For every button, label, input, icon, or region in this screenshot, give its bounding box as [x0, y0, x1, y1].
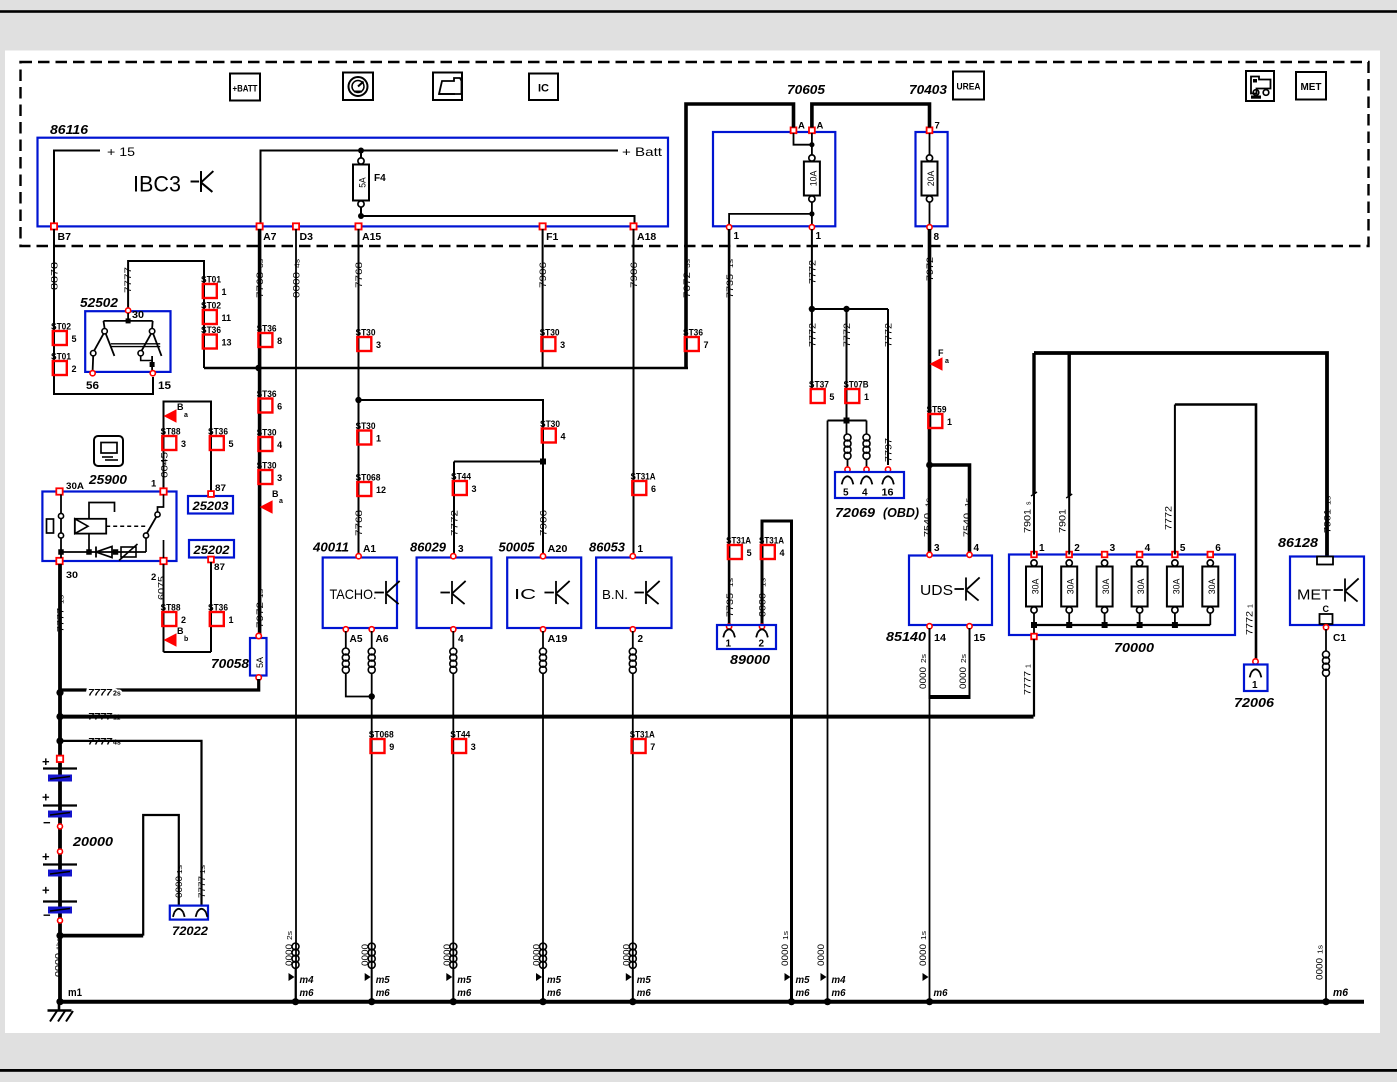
branch to UDS pin 4 — [930, 465, 970, 554]
icon printer — [433, 73, 462, 101]
svg-text:ST31A: ST31A — [726, 536, 751, 547]
fuse holder 70403 box — [916, 132, 948, 226]
70605 pins A A — [791, 127, 797, 133]
svg-text:5: 5 — [1180, 543, 1186, 554]
control unit UDS 85140 box — [909, 556, 992, 626]
52502 internals — [127, 313, 129, 321]
svg-text:7735: 7735 — [725, 274, 735, 298]
branch junction on wire 7768 — [355, 397, 361, 403]
svg-text:70000: 70000 — [1114, 640, 1155, 655]
svg-text:ST068: ST068 — [356, 473, 381, 484]
fuse F4 5A — [358, 148, 364, 154]
svg-text:87: 87 — [215, 483, 226, 494]
bridge wire 25900 pin1 to 25203 pin 87 — [164, 402, 212, 494]
battery feed wire 7777 (thick vertical) — [58, 564, 62, 1002]
svg-text:F4: F4 — [374, 173, 386, 184]
thick feed wire 70605 to 70403 pin 7 — [812, 104, 930, 128]
svg-text:7772: 7772 — [1163, 506, 1173, 530]
svg-text:7777: 7777 — [55, 608, 65, 632]
svg-text:a: a — [184, 412, 188, 419]
svg-text:+: + — [42, 849, 50, 864]
70605 pins 1 1 — [727, 225, 732, 230]
wire 7768 from A15 — [358, 229, 360, 554]
svg-text:1s: 1s — [728, 577, 735, 587]
svg-text:72069: 72069 — [835, 505, 876, 520]
svg-text:0000: 0000 — [174, 876, 184, 898]
svg-text:1s: 1s — [783, 930, 790, 940]
connector ST068/9 — [371, 739, 385, 753]
connector ST44/3 — [453, 481, 467, 495]
svg-text:1: 1 — [222, 287, 227, 297]
svg-text:m5: m5 — [376, 974, 390, 986]
svg-text:30A: 30A — [1101, 579, 1111, 595]
svg-text:1: 1 — [1039, 543, 1045, 554]
wire 7901 fuse2 — [1068, 496, 1070, 555]
svg-text:1: 1 — [229, 615, 234, 625]
svg-text:ST30: ST30 — [257, 428, 277, 439]
svg-text:ST44: ST44 — [451, 472, 472, 483]
wire from F4 to pin A18 — [361, 216, 635, 226]
svg-text:−: − — [43, 908, 51, 923]
fuse box 70000 — [1009, 555, 1235, 636]
svg-text:70403: 70403 — [909, 82, 948, 97]
svg-text:A20: A20 — [548, 544, 568, 555]
svg-text:4: 4 — [1145, 543, 1151, 554]
svg-text:2s: 2s — [287, 930, 294, 940]
svg-text:7777: 7777 — [1023, 671, 1033, 695]
svg-text:1: 1 — [864, 392, 869, 402]
connector ST44/3 — [452, 739, 466, 753]
connector ST36/13 — [203, 335, 217, 349]
svg-text:13: 13 — [222, 338, 232, 348]
connector ST31A/4 — [761, 545, 775, 559]
fuse 20A — [926, 155, 932, 161]
connector ST02/11 — [203, 310, 217, 324]
svg-text:3: 3 — [472, 484, 477, 494]
svg-text:0000: 0000 — [532, 944, 542, 966]
svg-text:7768: 7768 — [354, 510, 364, 536]
svg-text:5: 5 — [829, 392, 834, 402]
connector ST36/6 — [258, 399, 272, 413]
branch to 7797 — [887, 309, 889, 465]
70403 pin 8 — [927, 225, 932, 230]
connector ST36/8 — [258, 333, 272, 347]
fuse 30A #3 — [1102, 552, 1108, 558]
svg-text:ST07B: ST07B — [844, 380, 869, 391]
svg-text:ST01: ST01 — [51, 352, 72, 363]
fuse 30A #5 — [1172, 552, 1178, 558]
svg-text:1: 1 — [1248, 604, 1255, 608]
coils under components — [345, 631, 347, 648]
svg-text:m4: m4 — [300, 974, 314, 986]
icon IC — [529, 74, 558, 101]
connector 72022 — [170, 906, 208, 920]
svg-text:7768: 7768 — [255, 272, 265, 298]
svg-text:MET: MET — [1301, 82, 1322, 93]
svg-text:3: 3 — [934, 543, 940, 554]
unit 50005 IC box — [507, 558, 581, 629]
connector ST36/7 — [685, 337, 699, 351]
connector ST31A/5 — [728, 545, 742, 559]
fuse 10A — [809, 155, 815, 161]
connector ST30/3 — [357, 337, 371, 351]
svg-text:(OBD): (OBD) — [883, 505, 919, 520]
joining wire — [164, 651, 212, 653]
unit 86053 B.N. box — [596, 558, 671, 629]
svg-text:0000: 0000 — [780, 944, 790, 966]
svg-text:TACHO.: TACHO. — [330, 586, 377, 602]
svg-text:8878: 8878 — [50, 262, 60, 290]
svg-text:2s: 2s — [921, 653, 928, 663]
svg-text:ST02: ST02 — [51, 322, 71, 333]
svg-text:72006: 72006 — [1234, 695, 1275, 710]
svg-text:0000: 0000 — [758, 593, 768, 617]
connector ST07B/1 — [845, 389, 859, 403]
svg-text:ST01: ST01 — [201, 275, 222, 286]
wire 7772 fuse5 — [1174, 405, 1176, 555]
svg-text:9: 9 — [389, 742, 394, 752]
svg-text:A19: A19 — [548, 634, 568, 645]
svg-text:+ 15: + 15 — [107, 145, 135, 159]
svg-text:IBC3: IBC3 — [133, 172, 181, 197]
ground drop m5/m6 at x=453.3 — [450, 943, 457, 950]
svg-text:7772: 7772 — [808, 323, 818, 347]
svg-text:6: 6 — [277, 402, 282, 412]
fuse 30A #2 — [1066, 552, 1072, 558]
svg-text:B: B — [177, 402, 184, 412]
ground drop m5/m6 at x=632.8 — [629, 943, 636, 950]
wire 7772 from 70605 pin 1 — [811, 229, 813, 390]
svg-text:1: 1 — [151, 479, 157, 490]
svg-text:1s: 1s — [728, 258, 735, 268]
connector ST59/1 — [928, 414, 942, 428]
svg-text:30A: 30A — [1066, 579, 1076, 595]
wire A5 joins A6 — [346, 673, 372, 697]
wire 7906 from F1 — [542, 229, 544, 368]
svg-text:7772: 7772 — [842, 323, 852, 347]
wire 7901 fuse1 — [1033, 494, 1035, 555]
svg-text:5: 5 — [747, 548, 752, 558]
svg-text:ST36: ST36 — [257, 389, 277, 400]
25900 pins 30A 1 30 2 — [56, 488, 62, 494]
svg-text:2: 2 — [181, 615, 186, 625]
unit 86029 box — [417, 558, 492, 629]
svg-text:0000: 0000 — [621, 944, 631, 966]
svg-text:3: 3 — [471, 742, 476, 752]
svg-text:ST068: ST068 — [369, 730, 394, 741]
svg-text:6075: 6075 — [157, 576, 167, 600]
wire +Batt rail inside IBC3 — [261, 151, 619, 227]
50005 pins — [540, 554, 545, 559]
svg-text:+ Batt: + Batt — [622, 145, 663, 159]
svg-text:1s: 1s — [926, 497, 933, 507]
svg-text:m6: m6 — [457, 987, 471, 999]
svg-text:7772: 7772 — [808, 260, 818, 284]
distribution wire to MET (thick) — [1034, 353, 1327, 557]
connector ST01/1 — [203, 284, 217, 298]
svg-text:1s: 1s — [965, 497, 972, 507]
wire 7972 from 70403 pin 8 (thick) — [928, 229, 932, 554]
svg-text:ST30: ST30 — [540, 328, 560, 339]
svg-text:6: 6 — [1215, 543, 1221, 554]
svg-text:7901: 7901 — [1323, 509, 1333, 533]
icon clock — [343, 73, 373, 101]
svg-text:20A: 20A — [926, 171, 936, 187]
connector 72022 wiring — [143, 815, 179, 936]
svg-text:12: 12 — [376, 485, 386, 495]
svg-text:0000: 0000 — [360, 944, 370, 966]
relay 25900 internals — [47, 519, 54, 533]
wire 7772 to 72006 — [1175, 405, 1256, 661]
svg-text:m6: m6 — [796, 987, 810, 999]
svg-text:ST88: ST88 — [161, 427, 181, 438]
svg-text:1hs: 1hs — [57, 937, 64, 950]
svg-text:7906: 7906 — [538, 262, 548, 288]
svg-text:2: 2 — [638, 634, 644, 645]
svg-text:52502: 52502 — [80, 295, 119, 310]
svg-text:b: b — [184, 636, 188, 643]
svg-text:0000: 0000 — [918, 944, 928, 966]
svg-text:ST31A: ST31A — [631, 472, 656, 483]
svg-text:m6: m6 — [376, 987, 390, 999]
svg-text:1s: 1s — [258, 588, 265, 598]
svg-text:a: a — [279, 498, 283, 505]
svg-text:1s: 1s — [177, 864, 184, 874]
svg-text:s: s — [1026, 501, 1033, 505]
svg-text:IC: IC — [538, 83, 549, 95]
svg-text:7901: 7901 — [1058, 509, 1068, 533]
connector ST30/4 — [258, 437, 272, 451]
svg-text:4: 4 — [862, 488, 868, 499]
diagnostic connector 72069 OBD — [845, 467, 850, 472]
svg-text:ST37: ST37 — [809, 380, 829, 391]
connector ST30/3 — [541, 337, 555, 351]
svg-text:A: A — [817, 121, 824, 132]
svg-text:+: + — [42, 883, 50, 898]
svg-text:1: 1 — [726, 639, 732, 650]
svg-text:D3: D3 — [300, 231, 314, 243]
battery 20000 — [57, 756, 63, 762]
UDS ground wires — [929, 628, 931, 699]
svg-text:30A: 30A — [1136, 579, 1146, 595]
IBC3 pins B7 A7 D3 A15 F1 A18 — [51, 223, 57, 229]
svg-text:7972: 7972 — [925, 257, 935, 281]
svg-text:0000: 0000 — [54, 953, 64, 977]
svg-text:4: 4 — [277, 440, 282, 450]
svg-text:1: 1 — [1252, 680, 1258, 691]
svg-text:1: 1 — [1026, 664, 1033, 668]
svg-text:86116: 86116 — [50, 122, 89, 137]
ground drop m4/m6 at x=295.5 — [292, 943, 299, 950]
icon UREA — [953, 72, 984, 100]
svg-text:3: 3 — [376, 340, 381, 350]
wire 7777 from fuse box to bus — [1033, 639, 1035, 717]
70000 internal bus — [1034, 624, 1210, 626]
svg-text:C: C — [1323, 604, 1330, 614]
svg-text:ST02: ST02 — [201, 301, 221, 312]
svg-text:70058: 70058 — [211, 656, 250, 671]
svg-text:2: 2 — [1074, 543, 1080, 554]
relay output boxes 25203 — [188, 496, 233, 514]
icon truck — [1246, 71, 1274, 101]
svg-text:1: 1 — [376, 434, 381, 444]
svg-text:A7: A7 — [263, 231, 277, 243]
main bus 7777 to fuse box 70000 — [60, 715, 1034, 719]
86053 pins — [630, 554, 635, 559]
svg-text:20000: 20000 — [72, 834, 114, 849]
svg-text:IC: IC — [514, 586, 536, 603]
svg-text:1: 1 — [638, 544, 644, 555]
svg-text:ST31A: ST31A — [630, 730, 655, 741]
svg-text:0000: 0000 — [958, 667, 968, 689]
MET ground wire — [1325, 629, 1327, 651]
connector ST31A/7 — [632, 739, 646, 753]
svg-text:7540: 7540 — [962, 513, 972, 537]
fuse 30A #4 — [1137, 552, 1143, 558]
svg-text:7772: 7772 — [1245, 611, 1255, 635]
svg-text:15: 15 — [158, 380, 171, 392]
svg-text:2s: 2s — [113, 691, 121, 698]
svg-text:1s: 1s — [200, 864, 207, 874]
svg-text:1s: 1s — [58, 594, 65, 604]
battery negative link — [60, 934, 143, 938]
svg-text:A6: A6 — [376, 634, 389, 645]
svg-text:5: 5 — [72, 334, 77, 344]
svg-text:6: 6 — [651, 484, 656, 494]
OBD splice horizontal — [828, 420, 867, 422]
svg-text:B.N.: B.N. — [602, 587, 628, 602]
connector ST36/5 — [210, 436, 224, 450]
wire 7768 3s from A7 (thick) — [258, 229, 262, 634]
connector ST02/5 — [53, 331, 67, 345]
wire 70058 to battery feed — [60, 679, 259, 690]
wire 7735 from 70605 pin 1 to 89000 — [728, 229, 731, 625]
svg-text:m6: m6 — [832, 987, 846, 999]
svg-text:ST36: ST36 — [257, 324, 277, 335]
svg-text:72022: 72022 — [172, 924, 208, 938]
svg-text:4: 4 — [561, 432, 566, 442]
svg-text:1: 1 — [816, 231, 822, 242]
branch wire to ST44/3 — [454, 461, 543, 463]
svg-text:30A: 30A — [1207, 579, 1217, 595]
svg-text:ST30: ST30 — [257, 461, 277, 472]
wire 7906 from A18 — [633, 229, 635, 554]
svg-text:4: 4 — [780, 548, 785, 558]
fuse holder 70605 box — [713, 132, 835, 226]
svg-text:7777: 7777 — [123, 267, 133, 293]
svg-text:30: 30 — [132, 310, 144, 321]
svg-text:8: 8 — [277, 336, 282, 346]
svg-text:MET: MET — [1297, 587, 1331, 604]
switch unit 52502 box — [85, 311, 170, 372]
svg-text:7972: 7972 — [255, 602, 265, 628]
svg-text:2: 2 — [72, 364, 77, 374]
svg-text:4: 4 — [974, 543, 980, 554]
svg-text:4: 4 — [458, 634, 464, 645]
svg-text:87: 87 — [214, 562, 225, 573]
svg-text:+BATT: +BATT — [233, 84, 258, 94]
svg-text:+: + — [42, 790, 50, 805]
svg-text:A18: A18 — [637, 231, 656, 243]
svg-text:0000: 0000 — [292, 272, 302, 298]
svg-text:25900: 25900 — [88, 472, 128, 487]
svg-text:UDS: UDS — [920, 582, 953, 599]
svg-text:7777: 7777 — [197, 876, 207, 898]
svg-text:7768: 7768 — [354, 262, 364, 288]
connector ST068/12 — [357, 482, 371, 496]
svg-text:3: 3 — [277, 473, 282, 483]
svg-text:50005: 50005 — [499, 541, 536, 555]
relay resistor with arrow — [121, 547, 136, 557]
svg-text:16: 16 — [882, 488, 894, 499]
svg-text:ST44: ST44 — [450, 730, 471, 741]
svg-text:7540: 7540 — [923, 513, 933, 537]
svg-text:0000: 0000 — [918, 667, 928, 689]
70403 pin 7 — [927, 127, 933, 133]
svg-text:3s: 3s — [685, 258, 692, 268]
svg-text:2: 2 — [759, 639, 765, 650]
86029 pins — [451, 554, 456, 559]
connector ST30/1 — [357, 431, 371, 445]
svg-text:UREA: UREA — [957, 82, 981, 92]
70000 output pin — [1031, 634, 1037, 640]
ground drop m5/m6 at x=543 — [540, 943, 547, 950]
svg-text:7772: 7772 — [450, 510, 460, 536]
long distribution wire 7777 horizontal — [204, 367, 688, 370]
svg-text:A15: A15 — [362, 231, 381, 243]
svg-text:m5: m5 — [457, 974, 471, 986]
connector 72006 — [1253, 659, 1258, 664]
svg-text:56: 56 — [86, 380, 99, 392]
wire 7906 down to 50005 A20 — [542, 462, 544, 555]
tachograph 40011 box — [323, 558, 397, 629]
ground wires of components — [371, 673, 373, 999]
svg-text:m4: m4 — [832, 974, 846, 986]
svg-text:25202: 25202 — [192, 543, 229, 557]
ground bus m6 — [60, 1000, 1364, 1004]
52502 pins 56 and 15 — [90, 371, 95, 376]
ground symbol m1 — [58, 1002, 61, 1011]
svg-text:15: 15 — [974, 633, 986, 644]
svg-text:m6: m6 — [934, 987, 948, 999]
svg-text:m5: m5 — [637, 974, 651, 986]
svg-text:85140: 85140 — [886, 629, 927, 644]
svg-text:1s: 1s — [761, 577, 768, 587]
connector 89000 — [727, 624, 732, 629]
connector ST30/3 — [258, 470, 272, 484]
control unit 86116 IBC3 box — [38, 138, 669, 227]
connector ST30/4 — [542, 429, 556, 443]
svg-text:40011: 40011 — [312, 541, 349, 555]
svg-text:7: 7 — [650, 742, 655, 752]
svg-text:ST36: ST36 — [683, 328, 703, 339]
wire 8878 from B7 — [54, 229, 153, 394]
svg-text:7: 7 — [704, 340, 709, 350]
wire 7777 from 52502 pin 30 — [128, 261, 204, 368]
svg-text:2: 2 — [151, 572, 156, 583]
svg-text:ST30: ST30 — [356, 328, 376, 339]
svg-text:5: 5 — [229, 439, 234, 449]
ground drop m5/m6 at x=371.7 — [368, 943, 375, 950]
svg-text:7772: 7772 — [884, 323, 894, 347]
svg-text:ST36: ST36 — [201, 325, 221, 336]
thick feed wire to 70605 pin A — [686, 104, 794, 367]
relay diode — [96, 547, 112, 558]
wire 7772 down to 86029 pin 3 — [453, 462, 455, 555]
wire 6075 from 25900 pin 2 — [163, 564, 165, 652]
svg-text:m1: m1 — [68, 987, 82, 999]
svg-text:14: 14 — [934, 633, 946, 644]
